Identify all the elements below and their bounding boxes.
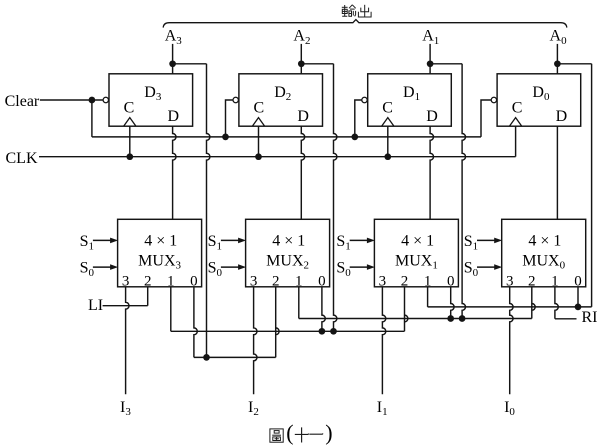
wire A0 branch horizontal xyxy=(557,63,591,65)
svg-text:MUX1: MUX1 xyxy=(395,252,438,271)
junction dot CLK rail at D3 xyxy=(126,153,133,160)
svg-text:D: D xyxy=(297,108,309,125)
wire S1 arrow into MUX3 xyxy=(93,239,111,241)
mux MUX2 box xyxy=(246,219,330,286)
wire MUX2 output to D input xyxy=(301,126,304,219)
flip-flop D3 box xyxy=(109,74,193,126)
svg-text:4 × 1: 4 × 1 xyxy=(401,232,434,249)
svg-text:4 × 1: 4 × 1 xyxy=(144,232,177,249)
wire I1 to MUX pin 3 xyxy=(382,287,385,395)
wire S0 arrow into MUX3 xyxy=(93,266,111,268)
wire A0 net: MUX1 pin 1 drop xyxy=(427,287,429,307)
wire A3 branch horizontal xyxy=(173,63,207,65)
svg-text:4 × 1: 4 × 1 xyxy=(272,232,305,249)
svg-text:C: C xyxy=(124,99,135,116)
svg-text:D: D xyxy=(556,108,568,125)
flip-flop D0 clock wedge xyxy=(509,118,521,127)
wire A3 net horizontal xyxy=(194,356,276,358)
flip-flop D3 clear bubble xyxy=(103,97,108,102)
junction dot A1 net at MUX1 pin 0 xyxy=(447,315,454,322)
mux MUX3 box xyxy=(118,219,202,286)
svg-text:LI: LI xyxy=(88,297,103,314)
junction dot A3 branch xyxy=(169,60,176,67)
wire A1 net horizontal xyxy=(299,318,532,320)
wire A1 net: MUX1 pin 0 drop xyxy=(451,287,454,319)
wire A3 net: MUX2 pin 2 riser xyxy=(276,287,279,358)
junction dot Clear rail at D1 riser xyxy=(351,134,358,141)
flip-flop D0 clear bubble xyxy=(491,97,496,102)
wire A3 branch vertical xyxy=(207,64,210,358)
wire A3 output stub (FF top to label) xyxy=(172,44,174,74)
wire CLK riser to D3 xyxy=(129,126,131,157)
wire A0 output stub (FF top to label) xyxy=(556,44,558,74)
mux MUX0 box xyxy=(502,219,586,286)
flip-flop D1 clear bubble xyxy=(362,97,367,102)
wire CLK riser to D1 xyxy=(387,126,389,157)
output group brace (over A3..A0) xyxy=(163,20,567,28)
wire A1 branch vertical xyxy=(462,64,465,319)
wire CLK rail xyxy=(39,156,516,158)
wire MUX0 output to D input xyxy=(556,126,558,219)
junction dot CLK rail at D2 xyxy=(255,153,262,160)
junction dot CLK rail at D1 xyxy=(384,153,391,160)
caption 圖(十一) - drawn glyphs + parens xyxy=(270,429,283,442)
wire I3 to MUX pin 3 xyxy=(126,287,129,395)
wire A3 net: MUX3 pin 0 drop xyxy=(194,287,197,358)
wire MUX3 output to D input xyxy=(173,126,176,219)
svg-text:D: D xyxy=(168,108,180,125)
svg-text:Clear: Clear xyxy=(5,93,40,110)
flip-flop D3 clock wedge xyxy=(124,118,136,127)
junction dot A0 branch xyxy=(554,60,561,67)
junction dot A3 net xyxy=(203,354,210,361)
junction dot A2 net at MUX2 pin 0 xyxy=(319,328,326,335)
wire S1 arrow into MUX0 xyxy=(477,239,495,241)
wire A2 branch vertical xyxy=(334,64,337,332)
svg-text:MUX0: MUX0 xyxy=(522,252,565,271)
wire A1 branch horizontal xyxy=(430,63,462,65)
label 輸出 (output) - drawn glyphs xyxy=(342,5,371,17)
wire S0 arrow into MUX2 xyxy=(221,266,239,268)
wire A0 branch vertical xyxy=(591,64,593,307)
wire S0 arrow into MUX0 xyxy=(477,266,495,268)
junction dot Clear rail at D2 riser xyxy=(222,134,229,141)
wire I2 to MUX pin 3 xyxy=(254,287,257,395)
flip-flop D2 clear bubble xyxy=(233,97,238,102)
wire Clear riser to D1 xyxy=(355,100,362,137)
wire Clear riser to D2 xyxy=(226,100,234,137)
wire LI to MUX3 pin 2 xyxy=(103,305,148,307)
wire A2 net: MUX1 pin 2 riser xyxy=(405,287,408,332)
junction dot A1 branch xyxy=(427,60,434,67)
wire A2 net: MUX2 pin 0 drop xyxy=(322,287,325,332)
wire S1 arrow into MUX1 xyxy=(350,239,368,241)
flip-flop D1 box xyxy=(368,74,452,126)
wire I0 to MUX pin 3 xyxy=(510,287,513,395)
wire A2 net: MUX3 pin 1 drop xyxy=(170,287,172,332)
wire A1 net: MUX2 pin 1 drop xyxy=(298,287,300,319)
wire CLK riser to D0 xyxy=(515,126,517,157)
svg-text:D: D xyxy=(426,108,438,125)
wire S0 arrow into MUX1 xyxy=(350,266,368,268)
flip-flop D0 box xyxy=(497,74,581,126)
wire Clear riser to D0 xyxy=(481,100,491,137)
svg-text:C: C xyxy=(512,99,523,116)
wire A0 net: MUX0 pin 0 drop xyxy=(577,287,579,307)
wire MUX1 output to D input xyxy=(430,126,433,219)
svg-text:CLK: CLK xyxy=(6,150,38,167)
svg-text:): ) xyxy=(325,420,332,445)
junction dot A2 net at A2 branch xyxy=(330,328,337,335)
wire A1 net: MUX0 pin 2 riser xyxy=(532,287,535,319)
wire A0 net horizontal xyxy=(428,306,592,308)
junction dot Clear branch xyxy=(89,97,96,104)
svg-text:(: ( xyxy=(286,420,293,445)
svg-text:C: C xyxy=(254,99,265,116)
svg-text:MUX2: MUX2 xyxy=(266,252,309,271)
mux MUX1 box xyxy=(374,219,458,286)
wire Clear rail xyxy=(92,136,481,138)
wire MUX0 pin 1 to RI xyxy=(555,287,558,319)
svg-text:RI: RI xyxy=(582,309,598,326)
wire S1 arrow into MUX2 xyxy=(221,239,239,241)
flip-flop D2 box xyxy=(239,74,323,126)
wire A2 output stub (FF top to label) xyxy=(300,44,302,74)
wire Clear drop xyxy=(91,100,93,137)
junction dot A1 net at A1 branch xyxy=(459,315,466,322)
junction dot A2 branch xyxy=(298,60,305,67)
svg-text:MUX3: MUX3 xyxy=(138,252,181,271)
svg-text:C: C xyxy=(382,99,393,116)
flip-flop D1 clock wedge xyxy=(382,118,394,127)
wire A2 net horizontal xyxy=(171,330,405,332)
svg-text:4 × 1: 4 × 1 xyxy=(528,232,561,249)
flip-flop D2 clock wedge xyxy=(252,118,264,127)
wire A2 branch horizontal xyxy=(301,63,333,65)
wire Clear input to D3 bubble xyxy=(40,99,103,101)
junction dot A0 net at MUX0 pin 0 xyxy=(575,304,582,311)
wire A1 output stub (FF top to label) xyxy=(429,44,431,74)
wire CLK riser to D2 xyxy=(258,126,260,157)
